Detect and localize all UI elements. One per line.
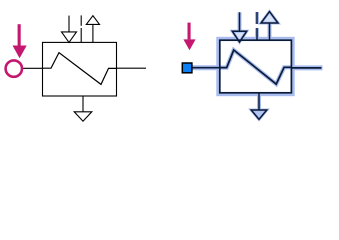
signal arrow right (magenta) — [183, 23, 195, 51]
wire right — [117, 67, 147, 69]
box U1 — [43, 42, 117, 96]
zigzag (pressure loss) — [43, 53, 117, 85]
wire right halo — [291, 65, 322, 70]
bottom arrow halo — [257, 93, 261, 110]
top heat arrow down — [62, 16, 77, 43]
box core — [220, 40, 292, 93]
box halo — [218, 39, 293, 95]
halo layer — [191, 12, 323, 120]
core layer — [191, 12, 322, 120]
signal arrow (magenta) — [13, 24, 27, 58]
wire square-to-box core — [191, 67, 219, 69]
zigzag halo — [220, 50, 292, 84]
wire square-to-box halo — [191, 65, 219, 70]
down arrow halo — [238, 12, 242, 31]
dash halo — [255, 12, 259, 24]
input port square (blue) — [182, 63, 192, 73]
up arrow halo — [261, 12, 278, 23]
bottom arrow down — [74, 96, 92, 121]
input port circle (magenta) — [6, 60, 22, 76]
wire left (circle to box) — [14, 67, 43, 69]
down arrow core — [239, 12, 241, 31]
wire right core — [291, 67, 321, 69]
zigzag core — [220, 50, 292, 84]
top heat arrow up — [86, 16, 99, 43]
up arrow core — [261, 12, 278, 23]
bottom arrow core — [258, 93, 260, 110]
center dashed line — [80, 15, 82, 42]
dash core — [256, 12, 258, 24]
